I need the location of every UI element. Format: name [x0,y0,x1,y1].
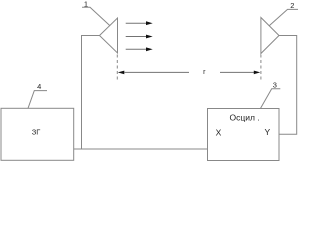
svg-text:ЗГ: ЗГ [32,127,41,136]
svg-text:3: 3 [273,81,277,90]
svg-text:4: 4 [37,82,41,91]
svg-text:2: 2 [290,1,294,10]
svg-text:Осцил .: Осцил . [230,112,260,122]
svg-text:X: X [216,128,222,138]
svg-text:Y: Y [264,127,270,137]
